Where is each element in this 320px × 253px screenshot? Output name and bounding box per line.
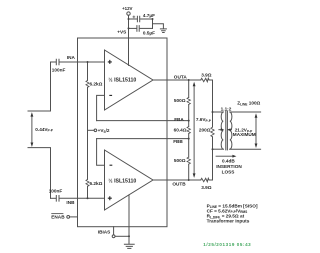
wire OUTA [153,79,201,81]
wire to top ground [153,24,164,29]
wire U1A minus input to FBA [97,95,105,120]
wire secondary bottom [230,148,261,150]
svg-text:100nF: 100nF [52,67,66,72]
op-amp U1B triangle [105,150,154,210]
svg-text:INA: INA [67,55,76,60]
svg-text:Transformer inputs: Transformer inputs [207,219,250,224]
wire source bottom horizontal [28,148,51,199]
terminal IBIAS [112,227,129,238]
arrow 7.6Vpp measure [193,82,196,178]
svg-text:1/25/201319 05:43: 1/25/201319 05:43 [203,242,251,247]
ground top [160,29,166,33]
resistor R3 3.9 top [201,78,213,81]
transformer T1 primary winding [221,112,223,149]
svg-text:+12V: +12V [122,6,132,11]
terminal ENAB [67,216,78,219]
svg-text:ENAB: ENAB [51,214,65,219]
svg-text:0.44VP-P: 0.44VP-P [35,127,53,133]
svg-text:ZLINE 100Ω: ZLINE 100Ω [237,101,260,107]
wire U1B minus input to FBB [97,139,105,166]
wire primary top stub [213,111,224,113]
resistor R2 6.2k bias bottom [86,179,89,198]
transformer T1 secondary winding [230,112,232,149]
resistor R8 200 termination [211,80,214,180]
arrow source 0.44Vpp [31,112,34,147]
svg-text:1.1:2: 1.1:2 [221,107,232,112]
wire cap right vertical [152,19,154,28]
svg-text:INB: INB [66,200,75,205]
U1A plus symbol [108,60,112,64]
svg-text:½ ISL15110: ½ ISL15110 [108,76,136,83]
resistor R7 3.9 bottom [201,178,213,181]
wire OUTB [153,179,201,181]
wire FBA feedback line [97,120,189,122]
svg-text:7.6VP-P: 7.6VP-P [196,117,212,123]
capacitor C4 0.5uF [129,26,153,32]
svg-text:500Ω: 500Ω [174,158,186,163]
wire source top horizontal [28,62,51,111]
svg-text:3.9Ω: 3.9Ω [201,73,212,78]
svg-text:200Ω: 200Ω [199,128,211,133]
svg-text:INSERTION: INSERTION [216,164,242,169]
svg-text:60.4Ω: 60.4Ω [174,128,187,133]
node +VS/2 stub and terminal [88,129,97,132]
svg-text:+VS/2: +VS/2 [98,128,110,134]
svg-text:IBIAS: IBIAS [98,230,111,235]
arrow insertion loss [216,155,237,158]
svg-text:0.5µF: 0.5µF [143,30,155,35]
svg-text:6.2kΩ: 6.2kΩ [90,181,103,186]
svg-text:OUTA: OUTA [174,74,188,79]
svg-text:LOSS: LOSS [222,170,235,175]
svg-text:4.7µF: 4.7µF [143,13,155,18]
resistor R6 500 bottom [187,139,190,180]
capacitor C2 100nF (INB coupling) [51,196,105,202]
svg-text:MAXIMUM: MAXIMUM [233,132,256,137]
svg-text:0.4dB: 0.4dB [222,159,235,164]
svg-text:500Ω: 500Ω [174,98,186,103]
resistor R5 60.4 [187,121,190,139]
wire +VS supply vertical [128,15,130,65]
resistor R1 6.2k bias top [86,62,89,179]
ground bottom [124,244,134,248]
svg-text:3.9Ω: 3.9Ω [201,185,212,190]
capacitor C3 4.7uF [129,16,153,22]
arrow 21.2Vpp measure [255,113,258,148]
terminal +12V circle [127,12,130,15]
op-amp U1A triangle [105,50,154,110]
svg-text:FBA: FBA [174,117,184,122]
U1B plus symbol [108,196,112,200]
svg-text:6.2kΩ: 6.2kΩ [90,81,103,86]
U1B minus symbol [110,164,113,166]
U1A minus symbol [109,94,112,96]
label ENAB [51,214,65,220]
resistor R4 500 top [187,80,190,121]
svg-text:FBB: FBB [173,139,183,144]
IC boundary box [78,38,168,227]
svg-text:½ ISL15110: ½ ISL15110 [108,177,136,184]
arrow pointer to primary [218,128,224,131]
svg-text:+VS: +VS [117,29,126,34]
transformer T1 core [226,111,228,150]
capacitor C1 100nF (INA coupling) [51,59,105,65]
wire primary bottom stub [213,148,224,150]
svg-text:100nF: 100nF [49,188,63,193]
wire secondary top [230,111,261,113]
svg-text:OUTB: OUTB [172,181,186,186]
arrow pointer to secondary [227,128,232,131]
wire U1B bottom supply to ground [128,195,130,244]
wire FBB feedback line [97,138,189,140]
